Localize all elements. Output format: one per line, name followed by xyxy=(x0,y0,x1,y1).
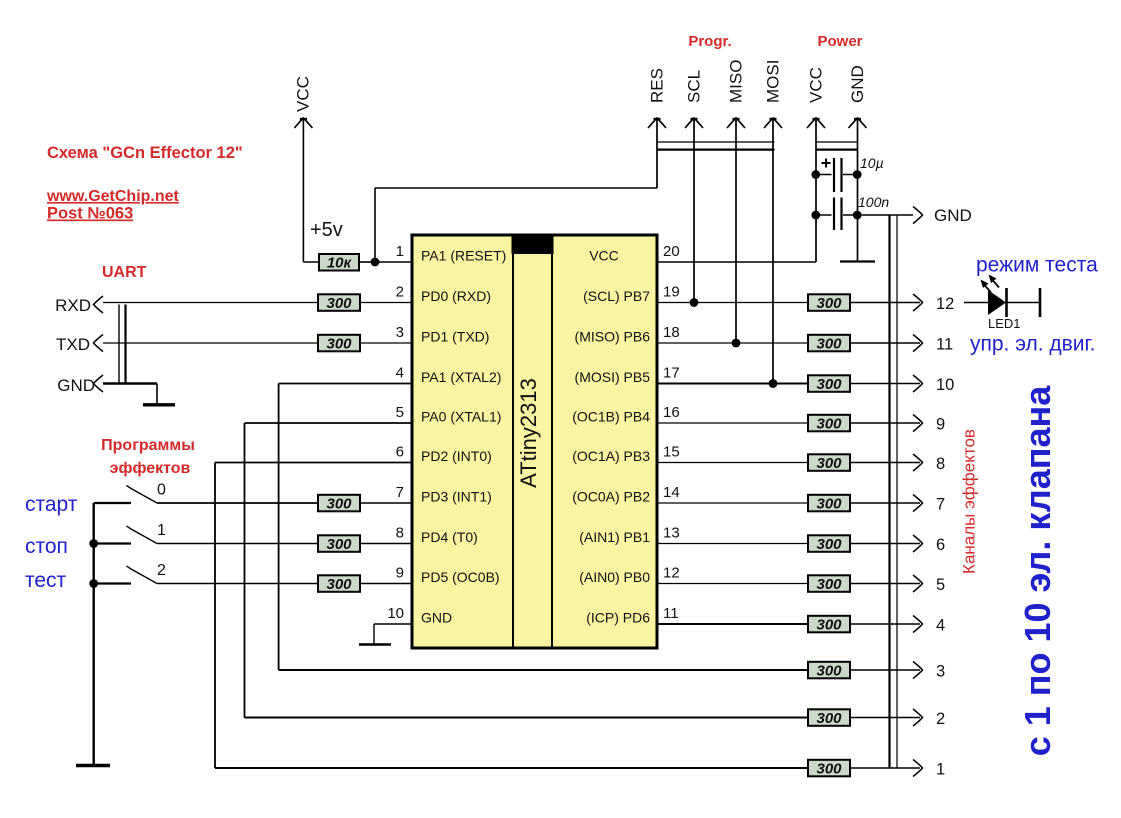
svg-text:Progr.: Progr. xyxy=(688,33,731,50)
svg-text:эффектов: эффектов xyxy=(110,460,191,477)
svg-text:300: 300 xyxy=(816,576,842,593)
svg-text:LED1: LED1 xyxy=(988,316,1021,331)
svg-text:1: 1 xyxy=(157,522,166,539)
svg-text:16: 16 xyxy=(663,404,680,421)
svg-text:4: 4 xyxy=(936,617,945,635)
svg-text:300: 300 xyxy=(816,455,842,472)
svg-text:100n: 100n xyxy=(858,194,889,210)
svg-text:5: 5 xyxy=(936,576,945,594)
svg-text:0: 0 xyxy=(157,482,166,499)
svg-text:300: 300 xyxy=(816,761,842,778)
svg-text:(ICP) PD6: (ICP) PD6 xyxy=(586,610,650,626)
svg-text:300: 300 xyxy=(816,710,842,727)
svg-text:режим теста: режим теста xyxy=(976,254,1098,277)
svg-text:300: 300 xyxy=(326,496,352,513)
svg-text:14: 14 xyxy=(663,484,680,501)
svg-text:RXD: RXD xyxy=(55,296,91,315)
svg-text:9: 9 xyxy=(936,416,945,434)
svg-text:MISO: MISO xyxy=(727,60,746,103)
svg-text:5: 5 xyxy=(396,404,404,421)
svg-text:(OC1A) PB3: (OC1A) PB3 xyxy=(572,448,650,464)
svg-text:PD5 (OC0B): PD5 (OC0B) xyxy=(421,569,500,585)
svg-text:20: 20 xyxy=(663,243,680,260)
svg-text:MOSI: MOSI xyxy=(764,60,783,103)
svg-text:300: 300 xyxy=(816,336,842,353)
svg-text:300: 300 xyxy=(816,416,842,433)
svg-text:RES: RES xyxy=(648,68,667,103)
svg-text:Post №063: Post №063 xyxy=(47,205,133,223)
svg-text:с 1 по 10 эл. клапана: с 1 по 10 эл. клапана xyxy=(1017,385,1058,757)
svg-text:300: 300 xyxy=(326,536,352,553)
svg-text:GND: GND xyxy=(57,376,95,395)
svg-text:3: 3 xyxy=(936,663,945,681)
svg-text:300: 300 xyxy=(326,336,352,353)
svg-text:300: 300 xyxy=(816,496,842,513)
svg-text:PA1 (XTAL2): PA1 (XTAL2) xyxy=(421,369,501,385)
svg-text:тест: тест xyxy=(25,569,67,592)
svg-text:www.GetChip.net: www.GetChip.net xyxy=(46,188,180,205)
svg-text:10: 10 xyxy=(387,605,404,622)
svg-text:(MISO) PB6: (MISO) PB6 xyxy=(575,329,651,345)
svg-text:UART: UART xyxy=(102,264,147,281)
svg-text:13: 13 xyxy=(663,525,680,542)
svg-text:6: 6 xyxy=(936,536,945,554)
svg-text:8: 8 xyxy=(936,455,945,473)
svg-text:PD4 (T0): PD4 (T0) xyxy=(421,529,478,545)
svg-text:старт: старт xyxy=(25,493,78,516)
svg-text:PD2 (INT0): PD2 (INT0) xyxy=(421,448,492,464)
svg-text:ATtiny2313: ATtiny2313 xyxy=(516,378,541,488)
svg-text:VCC: VCC xyxy=(807,67,826,103)
svg-text:PD3 (INT1): PD3 (INT1) xyxy=(421,489,492,505)
svg-text:SCL: SCL xyxy=(685,70,704,103)
svg-text:300: 300 xyxy=(816,617,842,634)
svg-text:17: 17 xyxy=(663,365,680,382)
svg-text:(OC0A) PB2: (OC0A) PB2 xyxy=(572,489,650,505)
svg-text:Программы: Программы xyxy=(101,437,195,454)
svg-text:6: 6 xyxy=(396,444,404,461)
svg-text:18: 18 xyxy=(663,324,680,341)
svg-text:11: 11 xyxy=(936,336,953,354)
svg-text:8: 8 xyxy=(396,525,404,542)
svg-text:300: 300 xyxy=(816,663,842,680)
svg-text:(OC1B) PB4: (OC1B) PB4 xyxy=(572,409,650,425)
svg-text:3: 3 xyxy=(396,324,404,341)
svg-text:7: 7 xyxy=(396,484,404,501)
svg-text:300: 300 xyxy=(326,295,352,312)
svg-text:PA1 (RESET): PA1 (RESET) xyxy=(421,248,506,264)
svg-text:Power: Power xyxy=(817,33,862,50)
svg-text:7: 7 xyxy=(936,496,945,514)
svg-text:(AIN1) PB1: (AIN1) PB1 xyxy=(579,529,650,545)
svg-text:(SCL) PB7: (SCL) PB7 xyxy=(583,288,650,304)
svg-text:стоп: стоп xyxy=(25,535,68,558)
svg-text:GND: GND xyxy=(934,206,972,225)
svg-text:15: 15 xyxy=(663,444,680,461)
svg-text:300: 300 xyxy=(816,295,842,312)
svg-text:10к: 10к xyxy=(327,255,353,272)
svg-text:PD0 (RXD): PD0 (RXD) xyxy=(421,288,491,304)
svg-text:1: 1 xyxy=(936,761,945,779)
svg-text:300: 300 xyxy=(326,576,352,593)
svg-text:упр. эл. двиг.: упр. эл. двиг. xyxy=(970,333,1095,356)
svg-text:VCC: VCC xyxy=(589,248,619,264)
svg-text:PA0 (XTAL1): PA0 (XTAL1) xyxy=(421,409,501,425)
svg-text:10: 10 xyxy=(936,376,954,394)
svg-text:2: 2 xyxy=(157,562,166,579)
svg-text:1: 1 xyxy=(396,243,404,260)
svg-text:300: 300 xyxy=(816,376,842,393)
svg-text:+5v: +5v xyxy=(310,219,343,241)
svg-text:11: 11 xyxy=(663,605,679,622)
svg-text:19: 19 xyxy=(663,284,680,301)
svg-text:GND: GND xyxy=(421,610,452,626)
svg-text:GND: GND xyxy=(848,65,867,103)
svg-text:(MOSI) PB5: (MOSI) PB5 xyxy=(575,369,651,385)
svg-text:9: 9 xyxy=(396,565,404,582)
svg-text:300: 300 xyxy=(816,536,842,553)
svg-text:4: 4 xyxy=(396,365,404,382)
svg-text:TXD: TXD xyxy=(56,335,90,354)
svg-text:(AIN0) PB0: (AIN0) PB0 xyxy=(579,569,650,585)
svg-text:PD1 (TXD): PD1 (TXD) xyxy=(421,329,489,345)
svg-text:VCC: VCC xyxy=(294,76,313,112)
svg-text:10µ: 10µ xyxy=(860,155,884,171)
svg-text:2: 2 xyxy=(396,284,404,301)
svg-text:12: 12 xyxy=(936,295,954,313)
svg-text:Схема "GCn Effector 12": Схема "GCn Effector 12" xyxy=(47,144,243,162)
svg-text:Каналы эффектов: Каналы эффектов xyxy=(960,429,979,574)
svg-text:2: 2 xyxy=(936,710,945,728)
svg-text:12: 12 xyxy=(663,565,680,582)
